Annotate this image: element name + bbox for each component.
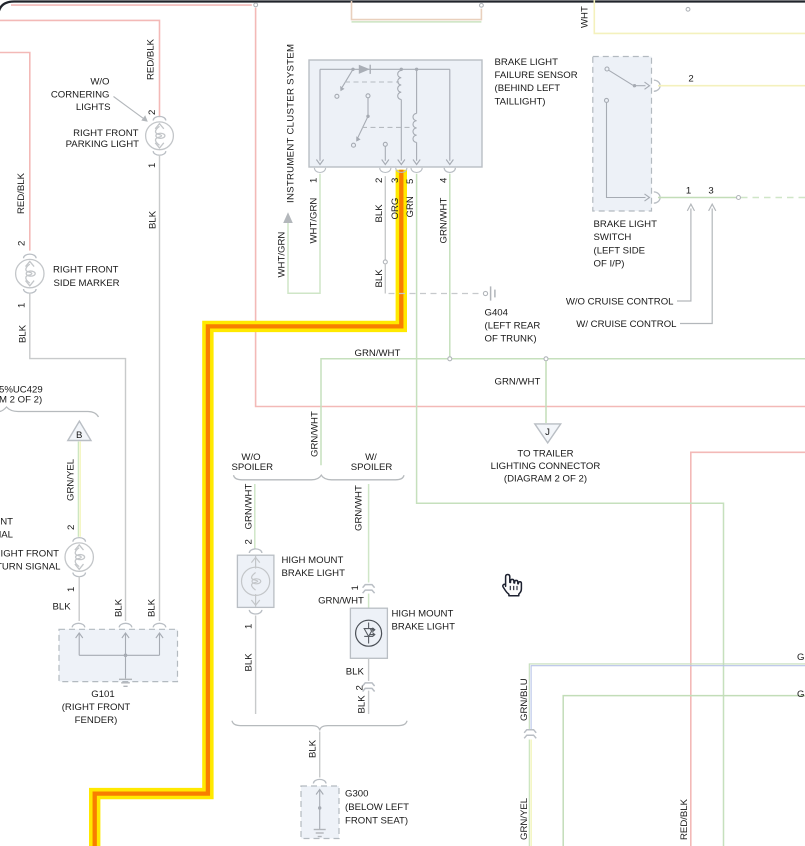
svg-text:FRONT SEAT): FRONT SEAT) xyxy=(345,816,408,827)
svg-text:5: 5 xyxy=(405,179,416,184)
svg-text:BLK: BLK xyxy=(308,739,319,758)
svg-text:3: 3 xyxy=(708,186,713,197)
svg-text:G300: G300 xyxy=(345,789,368,800)
svg-text:2: 2 xyxy=(374,178,385,183)
svg-text:GRN/BLU: GRN/BLU xyxy=(519,678,530,721)
svg-text:GRN/YEL: GRN/YEL xyxy=(519,797,530,840)
bulb right front turn signal xyxy=(65,543,93,571)
svg-text:RED/BLK: RED/BLK xyxy=(16,172,27,214)
svg-text:GRN/WHT: GRN/WHT xyxy=(495,377,541,388)
ground G404 symbol xyxy=(483,291,487,295)
wire RED/BLK to right front side marker xyxy=(0,53,30,251)
wire BLK turn signal to G101 xyxy=(78,576,80,621)
svg-text:GRN/WHT: GRN/WHT xyxy=(438,198,449,244)
svg-text:ORG: ORG xyxy=(390,198,401,220)
wire BLK left high mount xyxy=(255,616,257,715)
wire BLK right high mount lower xyxy=(368,691,370,714)
junction dot A xyxy=(351,68,354,71)
svg-text:1: 1 xyxy=(309,178,320,183)
wire GRN pin5 long run xyxy=(417,174,724,846)
wire BLK dashed to G404 xyxy=(389,293,481,295)
svg-text:LIGHTING CONNECTOR: LIGHTING CONNECTOR xyxy=(491,461,601,472)
wire BLK parking light to G101 xyxy=(159,155,161,622)
connector arc below turn signal xyxy=(73,573,86,577)
wire GRN bottom right second xyxy=(563,696,805,846)
bulb right front side marker xyxy=(16,259,44,287)
connector arc above side marker xyxy=(24,254,37,258)
svg-text:(RIGHT FRONT: (RIGHT FRONT xyxy=(62,702,131,713)
ground symbol G300 xyxy=(314,830,326,837)
wire GRN/WHT pin4 drop xyxy=(449,174,451,359)
svg-text:BLK: BLK xyxy=(346,666,365,677)
inline connector arcs right high mount bottom xyxy=(363,683,375,686)
high mount brake light (LED) box xyxy=(350,608,387,658)
mech link dashed 2 xyxy=(362,126,412,128)
wire YEL from switch pin 2 xyxy=(658,85,805,87)
wire GRN/YEL to turn signal xyxy=(77,442,79,537)
svg-text:GRN: GRN xyxy=(405,196,416,217)
svg-text:WHT/GRN: WHT/GRN xyxy=(309,198,320,244)
svg-text:WHT/GRN: WHT/GRN xyxy=(277,232,288,278)
bulb right front parking light xyxy=(146,122,174,150)
connector arcs above G101 xyxy=(72,623,85,627)
junction dot C xyxy=(415,68,418,71)
sensor pin 1 connector xyxy=(314,168,325,173)
brake light switch box xyxy=(593,57,652,212)
splice S5 xyxy=(448,357,452,361)
svg-text:HIGH MOUNT: HIGH MOUNT xyxy=(392,608,454,619)
arrow to instrument cluster system xyxy=(283,212,293,223)
wire GRN/WHT drop to trailer connector xyxy=(545,361,547,423)
sensor internal right drop to pin 4 xyxy=(449,69,451,161)
svg-text:RIGHT FRONT: RIGHT FRONT xyxy=(0,548,59,559)
wire GRN/WHT w/ spoiler branch xyxy=(368,484,370,583)
svg-text:GRN/WHT: GRN/WHT xyxy=(243,484,254,530)
wire GRN/WHT w/o spoiler branch xyxy=(254,484,256,549)
svg-text:RED/BLK: RED/BLK xyxy=(679,798,690,840)
wire GRN/WHT into right light xyxy=(368,594,370,609)
mouse cursor xyxy=(503,575,522,596)
svg-text:BLK: BLK xyxy=(243,653,254,672)
splice S6 xyxy=(544,357,548,361)
svg-text:G101: G101 xyxy=(91,689,114,700)
connector arc below parking bulb xyxy=(153,151,166,155)
splice S4 xyxy=(383,260,387,264)
G101 internal leads xyxy=(76,633,164,679)
svg-text:SPOILER: SPOILER xyxy=(232,462,274,473)
switch pin 1-3 connector xyxy=(654,192,660,203)
highlighted wire ORG core xyxy=(95,170,402,846)
switch contact lower xyxy=(605,98,609,102)
connector B triangle xyxy=(68,421,91,440)
svg-text:SIDE MARKER: SIDE MARKER xyxy=(54,278,120,289)
svg-text:2: 2 xyxy=(66,525,77,530)
wire GRN from switch pins xyxy=(658,197,736,199)
connector arc below left high mount xyxy=(249,610,262,614)
sensor pin 2 connector xyxy=(380,168,391,173)
svg-text:RIGHT FRONT: RIGHT FRONT xyxy=(53,265,119,276)
svg-text:SPOILER: SPOILER xyxy=(351,462,393,473)
switch pin 2 connector xyxy=(654,80,660,91)
relay coil L2 xyxy=(416,69,418,113)
svg-text:WHT: WHT xyxy=(580,6,591,28)
wire BLK to G300 xyxy=(319,732,321,778)
svg-text:BRAKE LIGHT: BRAKE LIGHT xyxy=(495,57,559,68)
highlighted wire ORG (traced circuit) yellow band xyxy=(95,170,402,846)
svg-text:2: 2 xyxy=(17,241,28,246)
svg-text:NT: NT xyxy=(0,517,13,528)
svg-text:2: 2 xyxy=(355,685,366,690)
junction dot B xyxy=(400,68,403,71)
sensor pin 2 stub xyxy=(383,142,387,146)
svg-text:LIGHTS: LIGHTS xyxy=(76,102,111,113)
brace spoiler split xyxy=(234,475,405,480)
sensor pin 3 connector xyxy=(396,168,407,173)
connector arc below side marker xyxy=(24,289,37,293)
svg-text:W/ CRUISE CONTROL: W/ CRUISE CONTROL xyxy=(576,319,677,330)
svg-text:NAL: NAL xyxy=(0,529,14,540)
wire RED feed top-left horizontal to splice xyxy=(11,4,252,6)
wire RED/BLK bottom right vertical xyxy=(691,452,805,846)
svg-text:GRN/WHT: GRN/WHT xyxy=(310,411,321,457)
splice S1 xyxy=(254,3,258,7)
wire GRN dashed continuation xyxy=(741,197,805,199)
inline connector arcs GRN/BLU to GRN/YEL xyxy=(524,730,536,733)
brake light failure sensor box xyxy=(309,60,482,167)
bulb high mount left xyxy=(242,556,270,607)
svg-text:GRN: GRN xyxy=(797,652,805,663)
svg-text:M 2 OF 2): M 2 OF 2) xyxy=(0,394,42,405)
ground symbol G101 xyxy=(119,679,132,686)
high mount brake light (bulb) box xyxy=(237,555,274,607)
sensor pin 4 connector xyxy=(444,168,455,173)
ground G101 box xyxy=(59,629,178,681)
wire GRN/WHT horizontal bus xyxy=(321,359,805,466)
svg-text:1: 1 xyxy=(686,186,691,197)
svg-text:1: 1 xyxy=(243,624,254,629)
svg-text:BRAKE LIGHT: BRAKE LIGHT xyxy=(282,568,346,579)
svg-text:W/O: W/O xyxy=(90,77,109,88)
svg-text:BLK: BLK xyxy=(18,324,29,343)
wire GRN/BLU bottom right xyxy=(529,664,805,731)
svg-text:SWITCH: SWITCH xyxy=(594,232,632,243)
svg-text:1: 1 xyxy=(17,303,28,308)
wire WHT/GRN pin1 to instrument cluster arrow xyxy=(288,174,320,293)
svg-text:RED/BLK: RED/BLK xyxy=(146,38,157,80)
connector arc above G300 xyxy=(313,779,326,783)
sensor internal top bus xyxy=(320,68,450,70)
relay coil L1 xyxy=(398,71,402,100)
wire BRN loop at top xyxy=(352,1,482,20)
wire GRN/YEL bottom xyxy=(528,740,530,846)
svg-text:BLK: BLK xyxy=(53,602,72,613)
svg-text:BLK: BLK xyxy=(148,210,159,229)
svg-text:GRN: GRN xyxy=(797,689,805,700)
wire BLK pin2 upper xyxy=(384,176,386,260)
svg-text:GRN/WHT: GRN/WHT xyxy=(354,485,365,531)
switch arm SW1 xyxy=(342,69,353,87)
svg-text:BLK: BLK xyxy=(374,269,385,288)
junction dot G101 xyxy=(124,654,128,658)
svg-text:OF TRUNK): OF TRUNK) xyxy=(485,334,537,345)
svg-text:3: 3 xyxy=(390,178,401,183)
wire BLK pin2 lower xyxy=(384,264,386,293)
wire RED/BLK vertical trunk to lower horizontal run xyxy=(256,8,805,407)
svg-text:CORNERING: CORNERING xyxy=(51,90,110,101)
svg-text:2: 2 xyxy=(243,539,254,544)
wire BLK side marker to G101 xyxy=(30,293,126,622)
junction dot G300 xyxy=(318,806,321,809)
svg-text:2: 2 xyxy=(688,74,693,85)
mech link dashed 1 xyxy=(345,81,399,83)
sensor internal left drop to pin 1 xyxy=(319,69,321,161)
svg-text:RIGHT FRONT: RIGHT FRONT xyxy=(73,128,139,139)
svg-text:BLK: BLK xyxy=(374,204,385,223)
diagram frame top border xyxy=(0,2,805,17)
svg-text:OF I/P): OF I/P) xyxy=(594,259,625,270)
wire GRN companion at top xyxy=(352,21,482,23)
wire YEL corner top right xyxy=(594,0,805,33)
svg-text:(BEHIND LEFT: (BEHIND LEFT xyxy=(495,83,561,94)
svg-text:BRAKE LIGHT: BRAKE LIGHT xyxy=(392,622,456,633)
svg-text:BRAKE LIGHT: BRAKE LIGHT xyxy=(594,219,658,230)
svg-text:TAILLIGHT): TAILLIGHT) xyxy=(495,96,546,107)
connector arc above parking bulb xyxy=(153,116,166,120)
svg-text:1: 1 xyxy=(350,585,361,590)
svg-text:1: 1 xyxy=(66,587,77,592)
G300 internal lead xyxy=(316,790,323,830)
svg-text:G404: G404 xyxy=(485,307,509,318)
svg-text:HIGH MOUNT: HIGH MOUNT xyxy=(282,555,344,566)
svg-text:(LEFT REAR: (LEFT REAR xyxy=(485,321,541,332)
splice S3 on top border xyxy=(686,7,690,11)
connector arc above left high mount xyxy=(249,549,262,553)
svg-text:FENDER): FENDER) xyxy=(75,715,118,726)
svg-text:BLK: BLK xyxy=(114,598,125,617)
svg-text:GRN/YEL: GRN/YEL xyxy=(66,458,77,501)
connector J triangle xyxy=(535,424,561,443)
svg-text:BLK: BLK xyxy=(357,695,368,714)
wire RED/BLK to right front parking light xyxy=(0,20,160,117)
ground G300 box xyxy=(301,786,339,839)
svg-text:TURN SIGNAL: TURN SIGNAL xyxy=(0,561,61,572)
svg-text:(DIAGRAM 2 OF 2): (DIAGRAM 2 OF 2) xyxy=(504,474,587,485)
brace left cut xyxy=(0,407,99,417)
callout arrow to parking light xyxy=(114,97,144,119)
inline connector arcs right high mount top xyxy=(363,585,375,588)
connector arc above turn signal xyxy=(73,538,86,542)
splice S7 xyxy=(737,196,741,200)
brace ground merge xyxy=(232,721,407,731)
splice S2 xyxy=(480,3,484,7)
svg-text:B: B xyxy=(76,430,82,441)
svg-text:4: 4 xyxy=(438,177,449,183)
svg-text:1: 1 xyxy=(147,163,158,168)
wire BLK right high mount upper xyxy=(368,658,370,681)
svg-text:(BELOW LEFT: (BELOW LEFT xyxy=(345,802,409,813)
svg-text:(LEFT SIDE: (LEFT SIDE xyxy=(594,245,646,256)
svg-text:PARKING LIGHT: PARKING LIGHT xyxy=(66,139,140,150)
switch arm SW2 xyxy=(366,94,370,98)
svg-text:J: J xyxy=(545,427,550,438)
svg-text:W/O CRUISE CONTROL: W/O CRUISE CONTROL xyxy=(566,297,674,308)
LED symbol right high mount xyxy=(356,620,382,646)
diode D1 on top bus xyxy=(359,65,370,74)
svg-text:TO TRAILER: TO TRAILER xyxy=(517,448,573,459)
svg-text:GRN/WHT: GRN/WHT xyxy=(355,348,401,359)
svg-text:BLK: BLK xyxy=(147,598,158,617)
sensor pin 5 connector xyxy=(411,168,422,173)
svg-text:GRN/WHT: GRN/WHT xyxy=(318,596,364,607)
svg-text:FAILURE SENSOR: FAILURE SENSOR xyxy=(495,70,578,81)
svg-text:INSTRUMENT CLUSTER SYSTEM: INSTRUMENT CLUSTER SYSTEM xyxy=(286,44,297,203)
svg-text:2: 2 xyxy=(147,110,158,115)
switch contact upper xyxy=(605,67,609,71)
